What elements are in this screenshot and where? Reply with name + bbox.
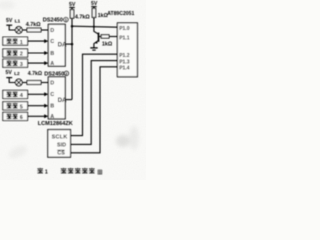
- svg-text:A: A: [50, 114, 54, 120]
- svg-text:C: C: [50, 92, 54, 98]
- svg-text:DS2450: DS2450: [43, 18, 63, 24]
- svg-text:P1.2: P1.2: [119, 53, 130, 59]
- svg-text:4.7kΩ: 4.7kΩ: [28, 71, 42, 77]
- svg-text:DA: DA: [58, 97, 67, 104]
- svg-text:1: 1: [20, 40, 23, 46]
- svg-text:C: C: [50, 39, 54, 45]
- svg-text:B: B: [50, 51, 54, 57]
- svg-text:5V: 5V: [6, 18, 13, 24]
- svg-text:P1.1: P1.1: [119, 36, 130, 42]
- svg-text:LCM12864ZK: LCM12864ZK: [38, 121, 73, 127]
- svg-text:5V: 5V: [6, 70, 13, 76]
- svg-text:2: 2: [20, 52, 23, 58]
- svg-text:D: D: [50, 80, 54, 86]
- svg-text:DA: DA: [58, 41, 67, 48]
- svg-text:P1.4: P1.4: [119, 65, 130, 71]
- svg-text:4.7kΩ: 4.7kΩ: [75, 14, 90, 20]
- svg-text:1kΩ: 1kΩ: [102, 42, 113, 48]
- svg-text:A: A: [50, 61, 54, 67]
- svg-text:SID: SID: [57, 143, 66, 149]
- svg-text:CS: CS: [57, 151, 65, 157]
- svg-text:4.7kΩ: 4.7kΩ: [26, 22, 41, 28]
- svg-text:1: 1: [45, 169, 48, 175]
- svg-text:3: 3: [20, 62, 23, 68]
- svg-text:AT89C2051: AT89C2051: [107, 11, 134, 17]
- svg-text:6: 6: [20, 115, 23, 121]
- svg-text:SCLK: SCLK: [52, 134, 68, 140]
- svg-text:L2: L2: [14, 71, 20, 77]
- svg-text:B: B: [50, 104, 54, 110]
- svg-text:P1.0: P1.0: [119, 26, 130, 32]
- svg-text:L1: L1: [15, 19, 21, 25]
- svg-text:D: D: [50, 28, 54, 34]
- svg-text:5: 5: [20, 105, 23, 111]
